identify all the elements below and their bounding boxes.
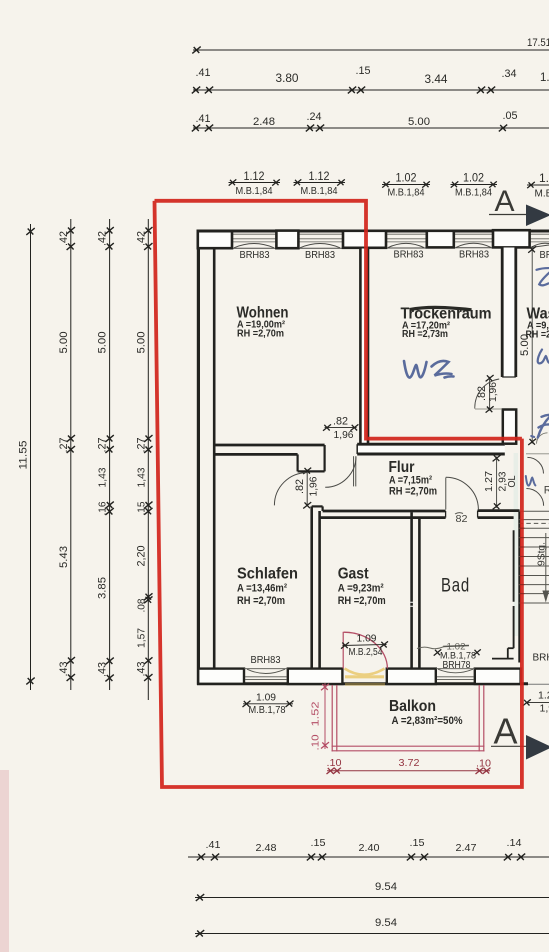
svg-text:.15: .15 bbox=[135, 501, 147, 515]
svg-text:Gast: Gast bbox=[338, 566, 370, 583]
wall pier top 5 T-cap bbox=[493, 230, 530, 247]
blue handwriting top right bbox=[537, 268, 549, 285]
svg-text:RH =2,70m: RH =2,70m bbox=[338, 595, 386, 607]
svg-text:.43: .43 bbox=[58, 662, 70, 677]
svg-text:.15: .15 bbox=[311, 837, 326, 849]
svg-text:3.72: 3.72 bbox=[399, 757, 420, 769]
top window sill line + arch Wohnen left bbox=[232, 247, 276, 249]
1.09 M.B.1,78 dimension below Schlafen window bbox=[243, 692, 294, 716]
svg-text:1,57: 1,57 bbox=[135, 628, 147, 648]
dim 1.27 1.96 partial bottom right bbox=[523, 690, 549, 715]
svg-text:A: A bbox=[493, 711, 517, 752]
svg-text:1,43: 1,43 bbox=[135, 467, 147, 487]
svg-text:BRH83: BRH83 bbox=[394, 250, 424, 261]
svg-text:.43: .43 bbox=[97, 662, 109, 677]
top window arch Wohnen right bbox=[298, 247, 342, 249]
door Flur upper-left: leaf + swing bbox=[325, 456, 356, 487]
bottom wall pier mid bbox=[288, 669, 343, 684]
dimension chain left 3: .42 5.00 .27 1,43 .16 3.85 .43 bbox=[97, 219, 114, 690]
svg-text:BRH78: BRH78 bbox=[443, 660, 471, 671]
svg-text:.08: .08 bbox=[135, 598, 147, 612]
svg-text:1,96: 1,96 bbox=[334, 429, 354, 441]
wall Trockenraum/Waschkueche lower stub bbox=[503, 410, 516, 444]
dim 5.00 vertical Waschkueche bbox=[519, 246, 536, 445]
svg-text:M.B.2,54: M.B.2,54 bbox=[349, 647, 383, 658]
svg-text:.15: .15 bbox=[356, 65, 371, 77]
outer wall left bbox=[197, 230, 200, 685]
svg-text:.41: .41 bbox=[196, 67, 211, 79]
svg-text:BRH83: BRH83 bbox=[251, 655, 281, 666]
dim .82 1,96 door Flur upper-left bbox=[323, 416, 358, 441]
svg-text:.10: .10 bbox=[310, 734, 322, 750]
door Trockenraum to Flur: swing + vertical dim bbox=[475, 375, 502, 413]
svg-text:BRH83: BRH83 bbox=[540, 250, 549, 261]
svg-text:1.27: 1.27 bbox=[483, 471, 495, 492]
svg-text:BRH83: BRH83 bbox=[305, 250, 335, 261]
window dim label 1.12 M.B.1,84 (Wohnen left) bbox=[229, 169, 281, 197]
dimension chain top row .41 2.48 .24 5.00 .05 bbox=[192, 110, 549, 131]
svg-text:5.00: 5.00 bbox=[58, 332, 70, 354]
svg-text:.10: .10 bbox=[476, 758, 491, 770]
svg-text:1.02: 1.02 bbox=[463, 171, 484, 185]
svg-text:.10: .10 bbox=[327, 757, 342, 769]
inner wall line left bbox=[213, 248, 216, 670]
svg-text:M.B.1,78: M.B.1,78 bbox=[249, 705, 286, 716]
room label Waschkueche partial bbox=[526, 306, 549, 341]
M.B.1,78 BRH78 labels Bad window bbox=[434, 649, 442, 655]
svg-text:1.52: 1.52 bbox=[310, 701, 322, 726]
top window arch Trockenraum right bbox=[454, 247, 493, 249]
room label Flur bbox=[389, 459, 438, 497]
1.09 M.B.2,54 dimension Gast door bbox=[341, 633, 388, 659]
dimension chain left total 11.55 bbox=[18, 224, 35, 690]
top facade window glazing lines bbox=[214, 234, 549, 242]
section marker A bottom bbox=[491, 711, 549, 760]
room label Gast bbox=[338, 566, 386, 608]
svg-text:2.40: 2.40 bbox=[359, 842, 380, 854]
blue handwriting WZ in Trockenraum bbox=[404, 361, 454, 378]
Bad bottom-right step bbox=[507, 648, 509, 658]
svg-text:.82: .82 bbox=[294, 479, 306, 494]
svg-text:.42: .42 bbox=[135, 231, 147, 246]
wall pier top 4 bbox=[427, 231, 454, 248]
dimension chain bottom 9.54 (1) bbox=[195, 881, 549, 901]
svg-text:BRH83: BRH83 bbox=[240, 250, 270, 261]
wall Wohnen/Trockenraum bbox=[360, 249, 368, 444]
svg-text:1.12: 1.12 bbox=[244, 169, 265, 183]
svg-text:2,20: 2,20 bbox=[135, 546, 147, 567]
svg-text:.82: .82 bbox=[476, 386, 488, 401]
svg-text:17.51: 17.51 bbox=[527, 37, 549, 49]
svg-text:.82: .82 bbox=[333, 416, 348, 428]
svg-text:RH =2,: RH =2, bbox=[526, 329, 549, 341]
room label Wohnen bbox=[237, 305, 289, 340]
stair treads showing through red overlay bbox=[520, 528, 525, 593]
svg-text:A =9,23m²: A =9,23m² bbox=[338, 583, 384, 595]
wall Wohnen/Schlafen (Wohnen bottom) bbox=[214, 445, 325, 471]
svg-text:RH =2,70m: RH =2,70m bbox=[237, 328, 284, 340]
blue handwriting f bottom right bbox=[538, 415, 549, 438]
svg-text:M.B.: M.B. bbox=[535, 189, 549, 200]
svg-text:A: A bbox=[494, 185, 514, 218]
dimension chain left 2: .42 5.00 .27 5.43 .43 bbox=[58, 219, 75, 690]
top window arch Trockenraum left bbox=[386, 247, 426, 249]
window dim label 1.02 M.B.1,84 (Trockenraum left) bbox=[382, 171, 430, 199]
wall Schlafen/Gast bbox=[310, 506, 313, 669]
Bad window bottom bbox=[436, 669, 475, 680]
svg-text:OL: OL bbox=[507, 475, 518, 487]
svg-text:Balkon: Balkon bbox=[389, 698, 436, 715]
svg-text:2.48: 2.48 bbox=[256, 842, 277, 854]
svg-text:.14: .14 bbox=[507, 837, 522, 849]
svg-text:A =13,46m²: A =13,46m² bbox=[237, 583, 287, 595]
window dim label partial right edge bbox=[527, 171, 549, 200]
window dim label 1.02 M.B.1,84 (Trockenraum right) bbox=[451, 171, 498, 199]
pink door swing Gast balcony bbox=[344, 632, 388, 668]
svg-text:RH =2,73m: RH =2,73m bbox=[402, 328, 448, 340]
wall Trockenraum/Waschkueche upper bbox=[502, 248, 516, 378]
balcony railing left bbox=[331, 685, 333, 751]
svg-text:2.47: 2.47 bbox=[456, 842, 477, 854]
bottom wall pier right of Gast door bbox=[387, 669, 436, 684]
svg-text:11.55: 11.55 bbox=[18, 441, 30, 470]
svg-text:5.00: 5.00 bbox=[408, 116, 430, 128]
Gast top wall step bbox=[312, 505, 323, 507]
wall Flur bottom right piece (Bad top) bbox=[478, 509, 520, 512]
wall Flur bottom left piece (Gast top) bbox=[323, 510, 446, 513]
svg-text:1.09: 1.09 bbox=[256, 692, 276, 704]
yellow highlight Gast balcony door bbox=[345, 669, 386, 685]
svg-text:3.80: 3.80 bbox=[276, 73, 299, 85]
svg-text:.27: .27 bbox=[135, 438, 147, 453]
svg-text:3.85: 3.85 bbox=[97, 577, 109, 599]
wall Bad right inner bbox=[513, 530, 515, 602]
pink door leaf Gast balcony bbox=[342, 632, 344, 669]
bottom wall pier right corner bbox=[475, 669, 521, 684]
svg-text:.41: .41 bbox=[206, 839, 221, 851]
svg-text:1.2: 1.2 bbox=[538, 690, 549, 702]
blue handwriting W at doors bbox=[526, 436, 536, 486]
svg-text:3.44: 3.44 bbox=[425, 74, 449, 86]
svg-text:RH =2,70m: RH =2,70m bbox=[389, 485, 437, 497]
window dim label 1.12 M.B.1,84 (Wohnen right) bbox=[294, 169, 346, 197]
svg-text:1.09: 1.09 bbox=[357, 633, 377, 645]
svg-text:M.B.1,84: M.B.1,84 bbox=[455, 188, 492, 199]
double doors right of Flur at stair landing bbox=[527, 457, 543, 473]
svg-text:M.B.1,84: M.B.1,84 bbox=[301, 186, 338, 197]
svg-text:1,9: 1,9 bbox=[540, 703, 549, 715]
section marker A top bbox=[489, 185, 549, 226]
door Waschkueche top right arc (faint) bbox=[537, 433, 548, 444]
svg-text:5.43: 5.43 bbox=[58, 546, 70, 568]
svg-text:.43: .43 bbox=[135, 662, 147, 677]
dimension chain top row .41 3.80 .15 3.44 .34 bbox=[192, 65, 549, 93]
svg-text:Schlafen: Schlafen bbox=[237, 566, 298, 583]
svg-text:.27: .27 bbox=[58, 438, 70, 453]
svg-text:.42: .42 bbox=[97, 231, 109, 246]
svg-text:.24: .24 bbox=[307, 111, 322, 123]
svg-text:1,96: 1,96 bbox=[307, 476, 319, 496]
door Bad from Flur: swing bbox=[446, 477, 479, 510]
svg-text:Flur: Flur bbox=[389, 459, 415, 476]
balcony dim 1.52 .10 vertical bbox=[310, 683, 330, 751]
svg-text:.34: .34 bbox=[502, 68, 517, 80]
wall pier top 3 bbox=[343, 231, 386, 248]
wall Flur top (Trockenraum bottom) bbox=[357, 444, 505, 454]
svg-text:1.12: 1.12 bbox=[309, 169, 330, 183]
svg-text:1.1: 1.1 bbox=[539, 171, 549, 185]
svg-text:M.B.1,84: M.B.1,84 bbox=[236, 186, 273, 197]
dimension chain bottom 9.54 (2) bbox=[195, 917, 549, 937]
wall pier top 2 bbox=[276, 231, 298, 249]
dimension chain top total 17.51 bbox=[192, 37, 549, 53]
red outline apartment boundary bbox=[155, 201, 522, 787]
svg-text:.27: .27 bbox=[97, 438, 109, 453]
svg-text:5.00: 5.00 bbox=[135, 332, 147, 354]
dimension chain left 4: .42 5.00 .27 1,43 .15 2,20 .08 1,57 .43 bbox=[135, 219, 152, 700]
svg-text:BRH8: BRH8 bbox=[533, 653, 549, 664]
svg-text:5.00: 5.00 bbox=[97, 332, 109, 354]
balcony railing right bbox=[478, 685, 480, 751]
svg-text:.15: .15 bbox=[410, 837, 425, 849]
staircase treads bbox=[519, 511, 549, 603]
svg-text:.16: .16 bbox=[97, 501, 109, 515]
svg-text:82: 82 bbox=[456, 514, 468, 525]
svg-text:RH =2,70m: RH =2,70m bbox=[237, 595, 285, 607]
svg-text:BRH83: BRH83 bbox=[459, 250, 489, 261]
room label Trockenraum + strikethrough bbox=[401, 306, 492, 341]
svg-text:.42: .42 bbox=[58, 231, 70, 246]
svg-text:A =2,83m²=50%: A =2,83m²=50% bbox=[392, 715, 463, 727]
svg-text:9.54: 9.54 bbox=[375, 881, 397, 893]
door Schlafen from Flur: dim line + swing bbox=[274, 468, 319, 509]
svg-text:Bad: Bad bbox=[441, 576, 470, 597]
bottom wall pier corner left bbox=[198, 669, 244, 684]
wall pier top corner bbox=[198, 231, 232, 248]
outer wall top bbox=[197, 230, 549, 233]
svg-text:9.54: 9.54 bbox=[375, 917, 397, 929]
dim 1.27 2,93 OL vertical right of Flur bbox=[483, 455, 518, 509]
svg-text:1.7: 1.7 bbox=[540, 72, 549, 84]
balcony dim .10 3.72 .10 bottom bbox=[327, 757, 492, 774]
svg-text:1.02: 1.02 bbox=[396, 171, 417, 185]
svg-text:.41: .41 bbox=[196, 113, 211, 125]
room label Schlafen bbox=[237, 566, 298, 608]
Schlafen window bottom bbox=[244, 669, 288, 680]
svg-text:1,43: 1,43 bbox=[97, 467, 109, 487]
blue handwriting W right mid bbox=[538, 350, 549, 364]
svg-text:1,96: 1,96 bbox=[487, 382, 499, 402]
top window arch right edge partial bbox=[530, 245, 549, 248]
balcony railing bottom bbox=[332, 745, 485, 747]
svg-text:.05: .05 bbox=[503, 110, 518, 122]
dimension chain bottom .41 2.48 .15 2.40 .15 2.47 .14 bbox=[188, 837, 549, 860]
svg-text:Re: Re bbox=[544, 485, 549, 497]
svg-text:M.B.1,84: M.B.1,84 bbox=[388, 188, 425, 199]
wall Gast/Bad bbox=[410, 512, 413, 669]
stair direction arrow bbox=[545, 533, 547, 597]
svg-text:2.48: 2.48 bbox=[253, 116, 275, 128]
outer wall bottom bbox=[197, 682, 528, 685]
wall Bad right outer bbox=[518, 511, 521, 663]
